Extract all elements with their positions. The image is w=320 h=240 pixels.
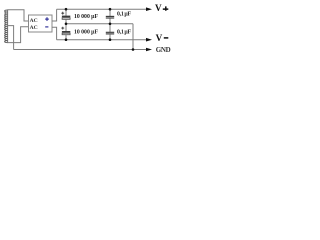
svg-text:V: V	[155, 3, 162, 13]
junction node: C4 bottom on V- rail	[109, 38, 112, 41]
junction node: C2 bottom on V- rail	[65, 38, 68, 41]
capacitor C2 10 000 uF (midpoint to V-)	[61, 24, 70, 40]
transformer T1 secondary winding	[5, 10, 8, 43]
capacitor C4 0,1 uF (midpoint to V-)	[106, 24, 114, 40]
svg-text:AC: AC	[30, 25, 38, 31]
wire: rectifier - output down to V- rail	[52, 27, 57, 40]
wire: winding center tap down to ground rail	[7, 26, 13, 50]
svg-text:AC: AC	[30, 18, 38, 24]
label - (negative output, blue)	[45, 26, 48, 28]
junction node: C3/C4 midpoint	[109, 23, 112, 26]
wire: capacitor midpoint rail	[66, 23, 133, 25]
bridge rectifier module U1	[29, 15, 53, 32]
arrow: V- output	[146, 38, 152, 42]
svg-text:0,1 µF: 0,1 µF	[117, 29, 131, 35]
svg-text:0,1 µF: 0,1 µF	[117, 12, 131, 18]
wire: winding bottom end to rectifier AC2 input	[7, 27, 28, 43]
junction node: C1 top on V+ rail	[65, 8, 68, 11]
wire: rectifier + output up to V+ rail	[52, 9, 57, 21]
wire: winding top end to rectifier AC1 input	[7, 10, 28, 21]
junction node: midpoint tie on ground rail	[132, 48, 135, 51]
wire: midpoint rail down to ground rail (crosses V- rail, no connection)	[132, 24, 134, 50]
svg-text:10 000 µF: 10 000 µF	[74, 29, 98, 35]
svg-text:GND: GND	[156, 46, 171, 54]
wire: V- rail	[57, 39, 146, 41]
junction node: C3 top on V+ rail	[109, 8, 112, 11]
wire: V+ rail	[57, 8, 146, 10]
capacitor C1 10 000 uF (V+ to midpoint)	[61, 9, 70, 24]
label + (positive output, blue)	[45, 17, 49, 21]
arrow: V+ output	[146, 7, 152, 11]
wire: ground rail	[14, 49, 146, 51]
arrow: GND output	[146, 48, 152, 52]
svg-text:V: V	[156, 33, 163, 43]
junction node: C1/C2 midpoint	[65, 23, 68, 26]
capacitor C3 0,1 uF (V+ to midpoint)	[106, 9, 114, 24]
svg-text:10 000 µF: 10 000 µF	[74, 14, 98, 20]
